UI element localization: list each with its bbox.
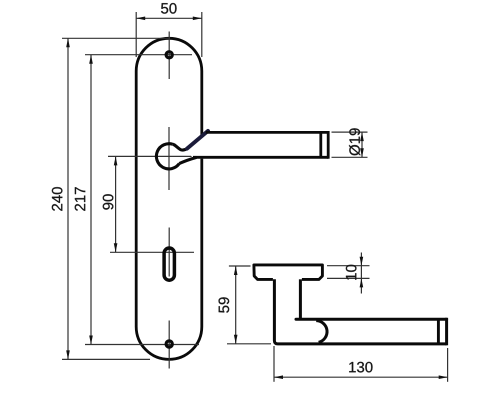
- dimension 240 arrow bottom: [66, 350, 70, 359]
- dimension 59 line: [235, 266, 237, 344]
- dimension 59 ext top: [229, 265, 251, 267]
- backplate outline (front view): [136, 38, 202, 359]
- dimension 90 arrow bottom: [114, 243, 118, 252]
- screw hole bottom crosshair v: [168, 321, 170, 369]
- dimension 130 arrow left: [274, 375, 283, 379]
- dimension 130 ext left: [273, 346, 275, 382]
- dimension 10 arrow bottom (outside): [360, 278, 364, 287]
- dimension 90 arrow top: [114, 156, 118, 165]
- side view neck fill: [273, 278, 302, 330]
- dimension 59 arrow top: [234, 266, 238, 275]
- dimension d19 arrow bottom: [360, 148, 364, 157]
- side view rose plate: [254, 265, 323, 280]
- dimension 130 ext right: [447, 348, 449, 382]
- side neck right edge: [299, 279, 302, 318]
- dimension 10 ext bottom: [327, 277, 370, 279]
- dimension 59 ext bottom: [227, 343, 271, 345]
- side lever right end: [445, 318, 448, 346]
- lever top edge (front): [206, 131, 328, 134]
- screw hole top: [166, 52, 172, 58]
- dimension 217 arrow top: [89, 55, 93, 64]
- lever bar fill (front view): [186, 131, 328, 159]
- side bend arc: [316, 321, 327, 343]
- dimension 50 ext left: [135, 12, 137, 57]
- neck upper diagonal: [187, 131, 208, 149]
- lever bottom edge (front): [193, 156, 328, 159]
- extension line 240 bottom: [62, 358, 150, 360]
- dimension 10 ext top: [327, 265, 370, 267]
- hub valley curve: [173, 144, 187, 150]
- side neck left edge and lever bottom edge: [274, 279, 446, 344]
- dimension 10 text: [346, 265, 357, 280]
- dimension 240 arrow top: [66, 38, 70, 47]
- extension line 90 top / hub crosshair h: [108, 155, 192, 157]
- lever right end (front): [327, 131, 330, 159]
- dimension d19 ext bottom: [332, 156, 368, 158]
- dimension 59 text: [219, 297, 230, 312]
- dimension 217 arrow bottom: [89, 336, 93, 345]
- neck lower diagonal: [179, 157, 196, 163]
- lever end cap line (front): [319, 132, 322, 157]
- dimension 217 text: [75, 187, 85, 211]
- keyhole: [164, 248, 174, 280]
- dimension 50 ext right: [201, 12, 203, 57]
- dimension d19 text: [349, 128, 360, 155]
- screw hole top crosshair v: [168, 32, 170, 80]
- extension line 217 bottom / screw crosshair h: [85, 344, 199, 346]
- dimension 217 line: [90, 55, 92, 345]
- dimension 50 line: [136, 17, 202, 19]
- dimension 10 line: [360, 253, 362, 294]
- extension line 90 bottom / keyhole crosshair h: [110, 251, 194, 253]
- dimension d19 arrow top: [360, 132, 364, 141]
- dimension 240 line: [67, 38, 69, 359]
- dimension d19 line: [361, 132, 363, 157]
- dimension d19 ext top: [332, 131, 368, 133]
- dimension 59 arrow bottom: [234, 335, 238, 344]
- screw hole bottom: [166, 341, 172, 347]
- dimension 50 arrow right: [193, 17, 202, 21]
- extension line 217 top / screw crosshair h: [85, 54, 192, 56]
- keyhole crosshair v: [168, 228, 170, 277]
- dimension 130 line: [274, 376, 448, 378]
- dimension 10 arrow top (outside): [360, 257, 364, 266]
- dimension 50 text: [161, 3, 177, 14]
- side lever top edge: [296, 318, 447, 321]
- dimension 240 text: [52, 187, 63, 211]
- hub crosshair v: [168, 127, 170, 190]
- extension line 240 top: [62, 37, 170, 39]
- dimension 130 text: [349, 362, 372, 373]
- side view lever fill: [273, 318, 448, 345]
- dimension 90 text: [103, 194, 114, 209]
- hub circle arc: [156, 144, 179, 169]
- dimension 90 line: [115, 156, 117, 252]
- side lever cap line: [437, 319, 440, 344]
- dimension 50 arrow left: [136, 17, 145, 21]
- dimension 130 arrow right: [439, 375, 448, 379]
